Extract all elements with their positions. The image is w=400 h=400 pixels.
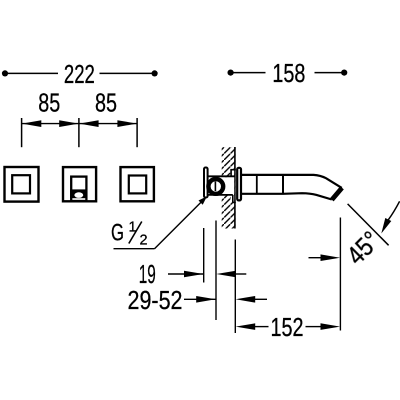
spout joint 1 [256,175,258,194]
dim 19 leader line [168,273,204,275]
valve body clearing [208,177,234,194]
extension line D (spout tip) [339,218,341,331]
svg-text:222: 222 [64,59,95,89]
dim 152 right arrow [321,323,341,330]
dim 19 right arrow [184,271,203,278]
square left outer [5,167,39,202]
handle front view [71,177,86,201]
dim 29-52 counter arrow [236,296,256,303]
G 1/2 leader underline [114,248,155,250]
in-wall body clearing [231,170,234,202]
spout bottom edge [242,193,332,199]
svg-text:G: G [111,220,124,247]
handle grip block [70,189,87,198]
G 1/2 label [111,220,148,249]
square right inner [129,176,146,194]
spout escutcheon side view [237,168,241,201]
45 deg reference line [348,204,389,245]
spout top edge [242,175,342,188]
svg-text:158: 158 [272,58,305,88]
dim 222 end dots [2,70,8,76]
in-wall box top [230,170,232,177]
svg-text:2: 2 [140,233,148,249]
handle escutcheon side view [204,168,208,198]
dim 19 counter tail [235,273,246,275]
square middle outer [63,167,96,201]
dim 29-52 leader line [184,298,216,300]
dim 85 arrows [22,120,41,127]
extension line A (plate front) [203,228,205,283]
G 1/2 leader diagonal [155,200,204,249]
dim 85 extension lines [22,118,138,147]
svg-text:85: 85 [38,88,60,118]
wall face line [234,147,236,229]
svg-text:152: 152 [271,312,304,342]
dim 29-52 counter tail [255,298,268,300]
dim 19 counter arrow [216,271,236,278]
handle knob ring [208,179,223,194]
knob chord detail [214,182,216,192]
dim 45 horizontal arrow [321,254,341,261]
dim 152 lines [255,326,269,328]
valve body top line [208,175,235,177]
extension line C (finished wall) [234,240,236,334]
spout joint 2 [282,175,284,194]
square left inner [12,175,30,193]
45 deg curved arrow [388,201,399,220]
dim 152 left arrow [236,323,256,330]
valve body bottom line [208,194,233,196]
extension line B (rough wall) [215,221,217,321]
dim 158 end dots [228,70,234,76]
dim 158 line [231,72,345,74]
square right outer [121,167,154,201]
dim 85 lines [22,123,138,125]
dim 45 horizontal arrow tail [309,257,323,259]
in-wall box bottom [232,195,234,203]
handle grip highlight [74,192,83,198]
svg-text:85: 85 [95,88,117,118]
spout mouth [332,188,342,200]
G 1/2 leader arrowhead [199,196,208,205]
dim 29-52 right arrow [196,296,215,303]
wall hatching [222,147,236,229]
svg-text:29-52: 29-52 [128,285,183,315]
dim 222 line [5,72,154,74]
